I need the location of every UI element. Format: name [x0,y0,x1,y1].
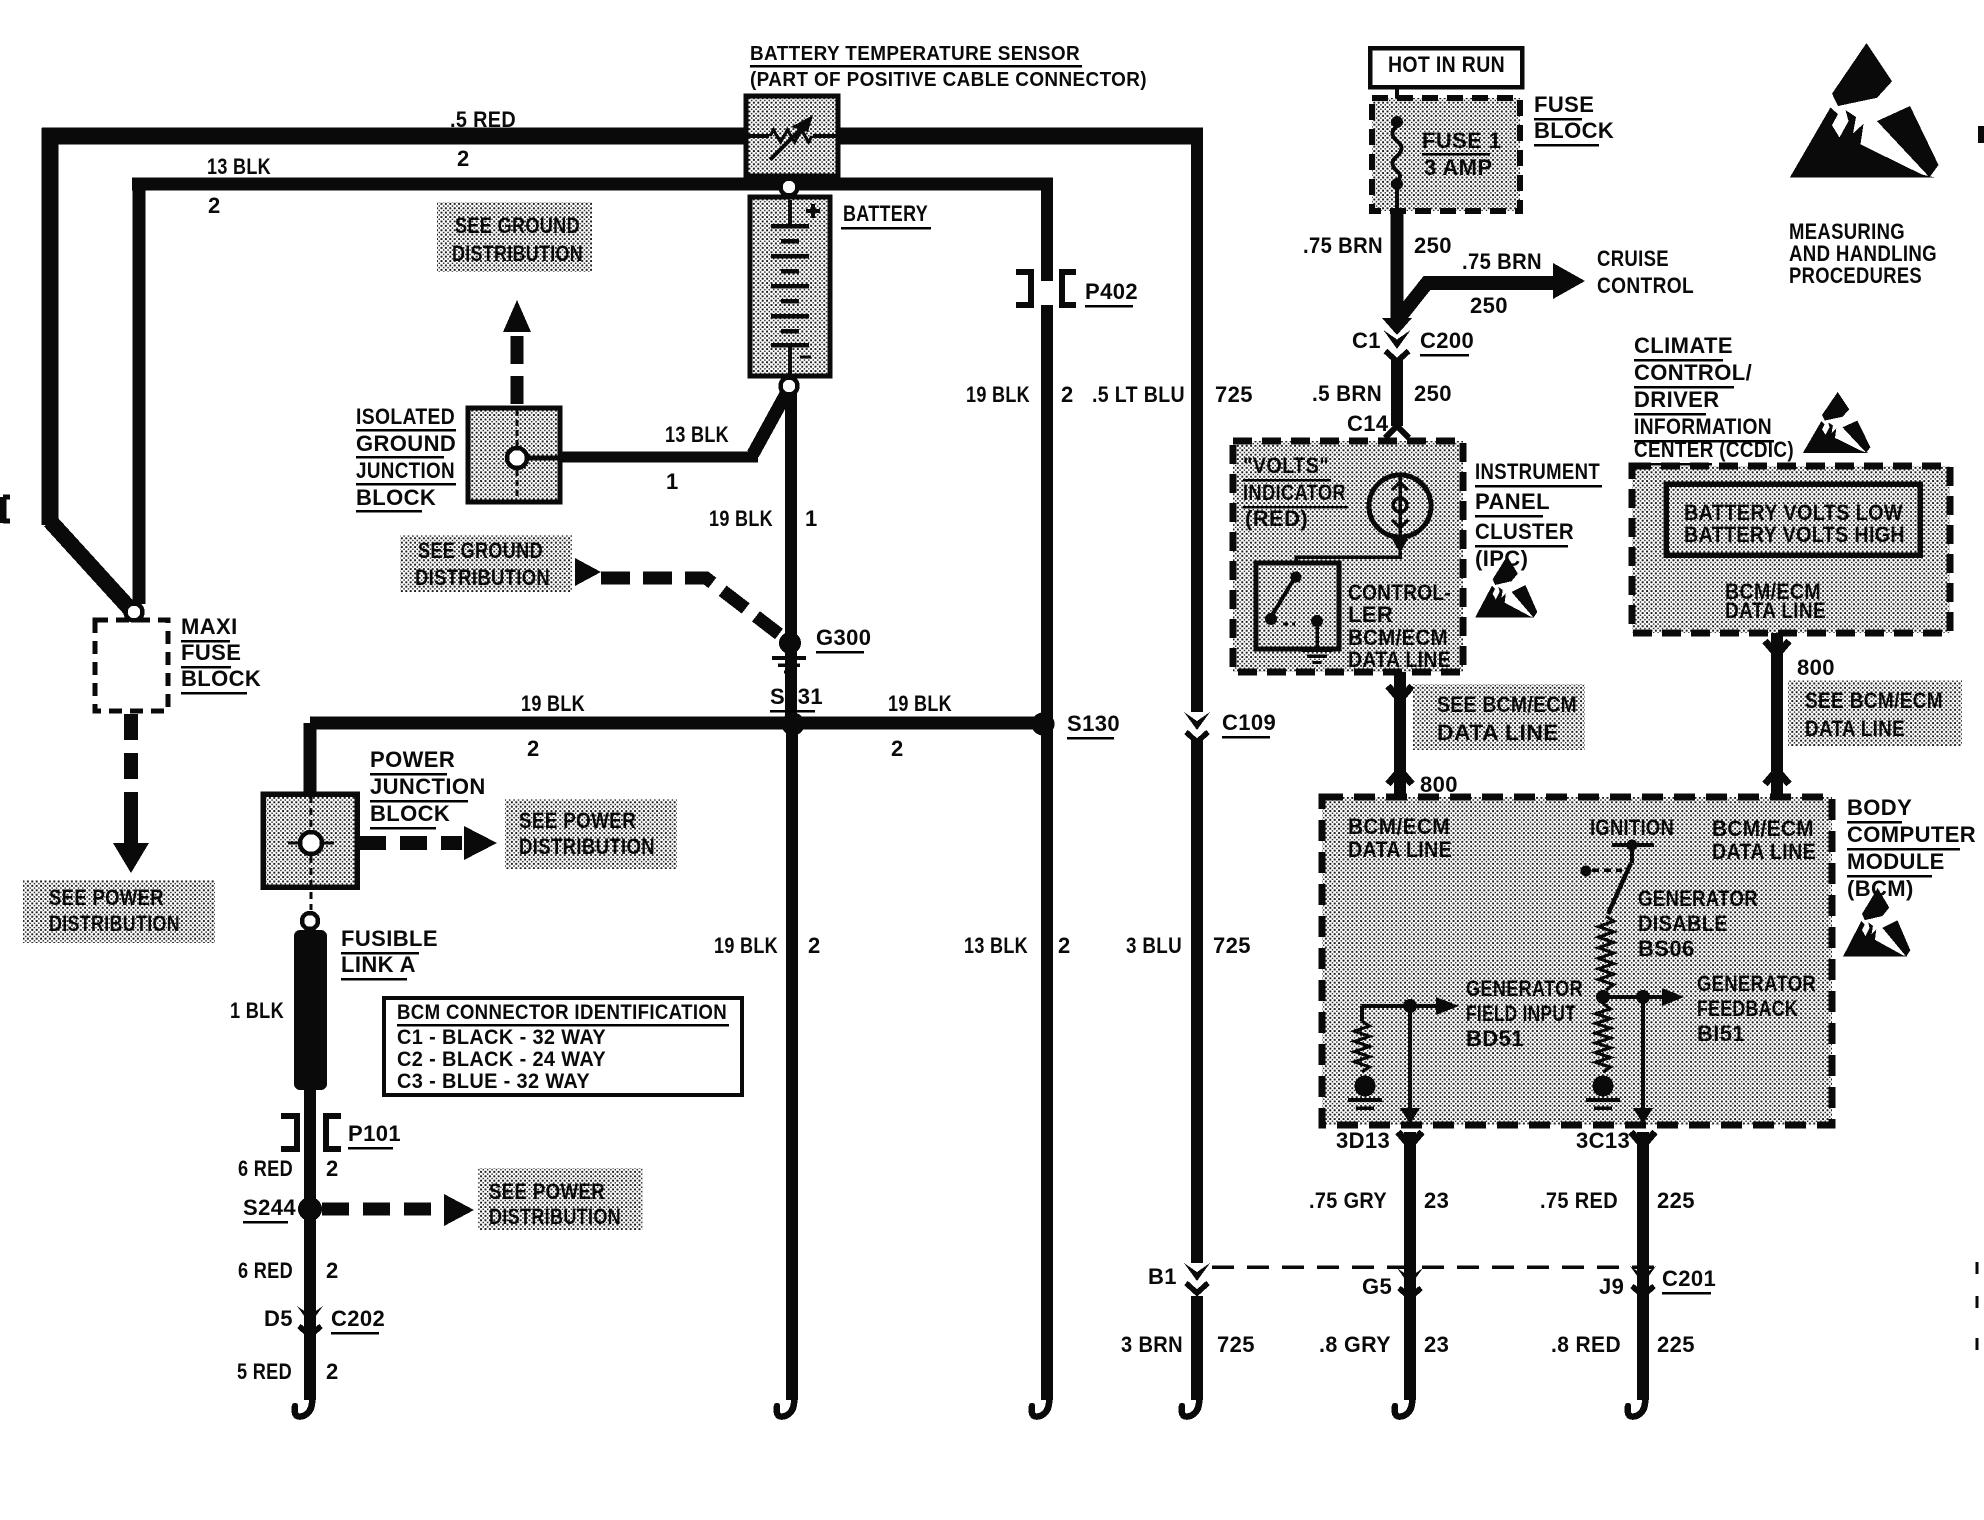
labels MEASURING AND HANDLING PROCEDURES [1789,219,1937,288]
svg-text:C2 - BLACK - 24 WAY: C2 - BLACK - 24 WAY [397,1047,606,1071]
svg-text:225: 225 [1657,1188,1695,1213]
battery volts message box [1666,484,1920,555]
resistor generator field input (left) [1355,1021,1370,1072]
svg-text:GENERATOR: GENERATOR [1638,886,1758,911]
wire field input node [1362,999,1436,1021]
svg-text:725: 725 [1213,933,1251,958]
splice S130 dot [1032,713,1055,736]
svg-text:.8 RED: .8 RED [1551,1332,1621,1357]
ignition switch symbol [1581,840,1655,915]
svg-text:INSTRUMENT: INSTRUMENT [1475,459,1600,484]
label C200 [1420,328,1474,357]
svg-text:C200: C200 [1420,328,1474,353]
svg-text:.8 GRY: .8 GRY [1319,1332,1391,1357]
svg-text:PANEL: PANEL [1475,489,1550,514]
arrow into dashed ground wire [575,558,601,586]
svg-text:3D13: 3D13 [1336,1128,1390,1153]
svg-text:P402: P402 [1085,279,1138,304]
svg-text:DISTRIBUTION: DISTRIBUTION [489,1204,621,1229]
node: battery negative terminal [781,378,798,395]
body computer module dashed box [1322,797,1832,1125]
power junction block internals [288,796,334,910]
svg-text:INFORMATION: INFORMATION [1634,414,1772,439]
controller box [1256,563,1339,649]
ground dot (right) [1593,1076,1614,1097]
svg-text:2: 2 [457,146,470,171]
scan edge marks [1976,1262,1979,1350]
hook terminal x1197 [1182,1394,1200,1417]
wire branch to cruise control [1396,283,1553,322]
resistor generator disable BS06 [1599,916,1614,990]
wire vertical trunk .5 LT BLU / 3 BLU (x1197) [1191,136,1203,1400]
svg-text:FUSE: FUSE [1534,92,1594,117]
labels MAXI FUSE BLOCK [181,614,261,695]
node: maxi fuse block terminal [126,604,143,621]
wire 19 BLK drop to power junction block [304,723,317,796]
labels FUSE BLOCK [1534,92,1614,147]
svg-text:COMPUTER: COMPUTER [1847,822,1976,847]
svg-text:19 BLK: 19 BLK [966,382,1030,407]
wire 19 BLK 1 (battery negative down to S131 column) [785,393,797,730]
svg-text:BLOCK: BLOCK [370,801,450,826]
svg-text:BATTERY VOLTS HIGH: BATTERY VOLTS HIGH [1684,522,1905,547]
svg-text:MAXI: MAXI [181,614,238,639]
label BATTERY TEMPERATURE SENSOR [750,43,1082,68]
svg-text:2: 2 [1061,382,1074,407]
svg-text:19 BLK: 19 BLK [714,933,778,958]
svg-text:C14: C14 [1347,411,1389,436]
svg-text:.75 GRY: .75 GRY [1309,1188,1387,1213]
label SEE GROUND DISTRIBUTION (upper) [437,202,592,272]
arrow generator feedback [1662,988,1684,1006]
connector C14 boundary symbol [1385,426,1409,475]
svg-text:DISTRIBUTION: DISTRIBUTION [519,834,655,859]
node: fusible link upper terminal [302,913,318,929]
label SEE POWER DISTRIBUTION (S244) [478,1168,643,1230]
sensor internal wire with variable resistor [748,130,836,142]
svg-text:FUSE: FUSE [181,640,241,665]
node: sensor lower terminal on 13 BLK wire [781,179,798,196]
connector G5 symbol [1397,1268,1423,1286]
label S244 [243,1195,296,1224]
wire 19 BLK 2 (S131 column down to bottom hook) [786,730,798,1400]
svg-text:SEE BCM/ECM: SEE BCM/ECM [1437,692,1577,717]
svg-text:FUSIBLE: FUSIBLE [341,926,438,951]
svg-text:LER: LER [1348,602,1393,627]
battery box [750,197,830,376]
svg-text:S244: S244 [243,1195,296,1220]
dashed wire to G300 [601,578,779,634]
label SEE BCM/ECM DATA LINE (left) [1413,684,1585,750]
wire 3C13 column [1631,1132,1655,1400]
labels BODY COMPUTER MODULE (BCM) [1847,795,1976,901]
BCM connector identification table box [384,998,742,1095]
labels BCM/ECM DATA LINE (top right) [1712,816,1816,864]
power junction block box [263,794,357,887]
svg-text:6 RED: 6 RED [238,1258,293,1283]
svg-text:800: 800 [1797,655,1835,680]
labels POWER JUNCTION BLOCK [370,747,486,830]
svg-text:BCM/ECM: BCM/ECM [1348,814,1450,839]
svg-text:INDICATOR: INDICATOR [1243,480,1346,505]
controller ground symbol [1302,648,1333,652]
variable resistor arrow [770,115,813,160]
svg-text:BI51: BI51 [1697,1021,1745,1046]
svg-text:.75 BRN: .75 BRN [1462,249,1542,274]
svg-text:DISTRIBUTION: DISTRIBUTION [49,911,180,936]
svg-text:DATA LINE: DATA LINE [1348,837,1452,862]
wire .5 BRN (C200 to IPC) [1391,358,1403,426]
wire 3D13 column [1398,1132,1422,1400]
ESD symbol (BCM) [1843,888,1910,957]
instrument panel cluster dashed box [1233,441,1463,672]
HOT IN RUN box [1370,48,1522,87]
arrow generator field input [1436,997,1459,1015]
controller switch symbol [1265,572,1323,649]
connector P101 brackets [281,1116,341,1149]
label S131 [770,684,823,713]
labels ISOLATED GROUND JUNCTION BLOCK [356,404,456,513]
dashed wire from S244 + arrow right [322,1194,474,1226]
resistor below node (right) [1596,1004,1611,1072]
svg-text:3C13: 3C13 [1576,1128,1630,1153]
svg-text:.75 RED: .75 RED [1540,1188,1618,1213]
labels CRUISE CONTROL [1597,246,1694,298]
svg-text:DATA LINE: DATA LINE [1712,839,1816,864]
dashed wire below maxi fuse block + arrow down [113,714,149,873]
node: power junction block terminal [300,832,322,854]
svg-text:DISTRIBUTION: DISTRIBUTION [415,565,550,590]
labels BATTERY VOLTS LOW/HIGH [1684,500,1905,547]
hook terminal 3D13 column [1395,1394,1413,1417]
fuse block dashed box [1372,98,1520,211]
svg-text:MODULE: MODULE [1847,849,1945,874]
svg-text:"VOLTS": "VOLTS" [1243,453,1329,478]
label SEE BCM/ECM DATA LINE (right) [1788,680,1962,746]
svg-text:2: 2 [326,1156,339,1181]
svg-text:C202: C202 [331,1306,385,1331]
svg-text:CRUISE: CRUISE [1597,246,1669,271]
label BATTERY [841,201,931,230]
wire CCDIC to BCM (800) [1765,633,1789,797]
labels BCM/ECM DATA LINE (top left) [1348,814,1452,862]
connector P402 brackets [1016,272,1076,305]
labels FUSIBLE LINK A [341,926,438,981]
svg-text:CLIMATE: CLIMATE [1634,333,1733,358]
svg-text:2: 2 [527,736,540,761]
svg-text:DATA LINE: DATA LINE [1348,647,1451,672]
svg-text:2: 2 [1058,933,1071,958]
labels GENERATOR FEEDBACK BI51 [1697,971,1816,1046]
wire 19 BLK 2 horizontal (power junction block to S130) [310,717,1043,730]
svg-text:IGNITION: IGNITION [1590,815,1674,840]
svg-text:23: 23 [1424,1332,1449,1357]
svg-text:CONTROL/: CONTROL/ [1634,360,1752,385]
svg-text:S130: S130 [1067,711,1120,736]
svg-text:13 BLK: 13 BLK [964,933,1028,958]
svg-text:2: 2 [891,736,904,761]
svg-text:C201: C201 [1662,1266,1716,1291]
svg-text:.5 LT BLU: .5 LT BLU [1092,382,1185,407]
ESD symbol (CCDIC) [1803,392,1870,453]
splice S244 dot [298,1197,322,1221]
wire vertical trunk 13BLK/19BLK (x1047) [1041,184,1053,1400]
wire diagonal battery negative to 13 BLK 1 [753,392,787,454]
svg-text:LINK A: LINK A [341,952,416,977]
wire .5 RED diagonal into maxi fuse block [50,521,131,610]
label SEE POWER DISTRIBUTION (power junction) [505,799,677,869]
svg-text:(RED): (RED) [1245,506,1308,531]
labels CLIMATE CONTROL / DRIVER INFORMATION CENTER (CCDIC) [1634,333,1794,466]
label P402 [1085,279,1138,308]
ground dot (left) [1355,1076,1376,1097]
label C109 [1222,710,1276,739]
hook terminal S131 column [777,1394,795,1417]
svg-text:SEE GROUND: SEE GROUND [418,538,543,563]
hook terminal 3C13 column [1628,1394,1646,1417]
wire 6 RED / 5 RED column [304,1090,316,1400]
svg-text:23: 23 [1424,1188,1449,1213]
svg-text:DRIVER: DRIVER [1634,387,1720,412]
wire 13 BLK trunk (horizontal + left vertical drop) [132,184,1053,604]
svg-text:SEE GROUND: SEE GROUND [455,213,580,238]
svg-text:2: 2 [326,1258,339,1283]
svg-text:D5: D5 [264,1306,293,1331]
scan artifact right edge top [1978,126,1984,143]
scan artifact left edge [3,497,10,523]
node dot (gen disable / feedback) [1596,990,1610,1004]
svg-text:1 BLK: 1 BLK [230,998,284,1023]
volts indicator lamp [1369,475,1431,537]
connector C200 symbol [1382,318,1412,362]
label G300 [816,625,871,654]
svg-text:GENERATOR: GENERATOR [1697,971,1816,996]
svg-text:225: 225 [1657,1332,1695,1357]
svg-text:3 AMP: 3 AMP [1424,155,1492,180]
wire feedback node down to 3C13 [1633,997,1653,1124]
svg-text:1: 1 [666,469,679,494]
svg-text:.5 RED: .5 RED [450,107,516,132]
label C202 [331,1306,385,1335]
ESD symbol (large, measuring/handling) [1790,43,1939,177]
svg-text:DISTRIBUTION: DISTRIBUTION [452,241,583,266]
ground G300 symbol [772,656,806,660]
svg-text:3 BLU: 3 BLU [1126,933,1182,958]
CCDIC dashed box [1632,466,1950,633]
svg-text:J9: J9 [1599,1274,1624,1299]
ground symbol (right) [1586,1100,1620,1108]
svg-text:JUNCTION: JUNCTION [356,458,455,483]
svg-text:725: 725 [1215,382,1253,407]
labels VOLTS INDICATOR (RED) [1243,453,1348,531]
battery cell plates [771,200,809,374]
connector J9/C201 symbol [1630,1266,1656,1284]
label SEE GROUND DISTRIBUTION (lower) [400,535,572,592]
svg-text:C3 - BLUE - 32 WAY: C3 - BLUE - 32 WAY [397,1069,590,1093]
svg-text:2: 2 [208,193,221,218]
svg-text:CLUSTER: CLUSTER [1475,519,1574,544]
wire node to feedback arrow [1603,990,1662,1004]
wire IPC to BCM (800) [1388,672,1412,797]
svg-text:BCM CONNECTOR IDENTIFICATION: BCM CONNECTOR IDENTIFICATION [397,1000,727,1024]
isolated ground junction block box [468,408,560,502]
connector C201 dashed line [1212,1265,1658,1269]
svg-text:19 BLK: 19 BLK [521,691,585,716]
junction block internal dashed stub [517,410,559,500]
svg-text:.5 BRN: .5 BRN [1312,381,1382,406]
connector B1/C201 symbol [1184,1263,1210,1281]
svg-text:13 BLK: 13 BLK [207,154,271,179]
dashed wire up to ground distribution (arrow up) [503,300,531,404]
svg-text:3 BRN: 3 BRN [1121,1332,1183,1357]
svg-text:B1: B1 [1148,1264,1177,1289]
svg-text:P101: P101 [348,1121,401,1146]
ground G300 node dot [779,632,801,654]
svg-text:13 BLK: 13 BLK [665,422,729,447]
label SEE POWER DISTRIBUTION (far left) [23,880,215,943]
labels GENERATOR FIELD INPUT BD51 [1466,976,1583,1051]
wire 13 BLK 1 (isolated ground junction block to battery) [561,452,758,463]
svg-text:SEE BCM/ECM: SEE BCM/ECM [1805,688,1943,713]
svg-text:5 RED: 5 RED [237,1359,292,1384]
maxi fuse block dashed box [95,620,168,711]
svg-text:DATA LINE: DATA LINE [1805,716,1905,741]
svg-text:CONTROL: CONTROL [1597,273,1694,298]
hook terminal 5 RED column [295,1394,313,1417]
svg-text:250: 250 [1414,381,1452,406]
svg-text:ISOLATED: ISOLATED [356,404,455,429]
svg-text:BATTERY TEMPERATURE SENSOR: BATTERY TEMPERATURE SENSOR [750,43,1080,65]
svg-text:C1: C1 [1352,328,1381,353]
svg-text:JUNCTION: JUNCTION [370,774,486,799]
svg-text:S131: S131 [770,684,823,709]
ESD symbol (IPC) [1475,556,1537,618]
fusible link A bar [294,930,327,1090]
svg-text:G5: G5 [1362,1274,1392,1299]
svg-text:250: 250 [1470,293,1508,318]
wire field node down to 3D13 [1400,1006,1420,1124]
ground symbol (left) [1348,1100,1382,1108]
svg-text:FIELD INPUT: FIELD INPUT [1466,1001,1576,1026]
arrow to cruise control [1553,263,1585,299]
dashed wire out of power junction block + arrow right [359,826,497,860]
svg-text:6 RED: 6 RED [238,1156,293,1181]
labels GENERATOR DISABLE BS06 [1638,886,1758,961]
svg-text:DATA LINE: DATA LINE [1725,598,1826,623]
wire .5 RED power trunk (top horizontal + left vertical) [42,128,1203,525]
svg-text:HOT IN RUN: HOT IN RUN [1388,52,1505,77]
svg-text:DISABLE: DISABLE [1638,911,1728,936]
svg-text:POWER: POWER [370,747,455,772]
svg-text:BLOCK: BLOCK [1534,118,1614,143]
labels INSTRUMENT PANEL CLUSTER (IPC) [1475,459,1602,571]
svg-text:725: 725 [1217,1332,1255,1357]
arrow below lamp [1392,539,1408,553]
svg-text:BLOCK: BLOCK [181,666,261,691]
svg-text:(PART OF POSITIVE CABLE CONNEC: (PART OF POSITIVE CABLE CONNECTOR) [750,69,1147,91]
label P101 [348,1121,401,1150]
wire .75 BRN fuse output [1391,211,1404,326]
svg-text:PROCEDURES: PROCEDURES [1789,263,1922,288]
svg-text:G300: G300 [816,625,871,650]
svg-text:19 BLK: 19 BLK [709,506,773,531]
svg-text:C1 - BLACK - 32 WAY: C1 - BLACK - 32 WAY [397,1025,606,1049]
labels FUSE 1 / 3 AMP [1422,128,1501,180]
svg-text:BODY: BODY [1847,795,1912,820]
svg-text:GENERATOR: GENERATOR [1466,976,1583,1001]
wire hot-in-run to fuse [1395,87,1399,122]
svg-text:2: 2 [326,1359,339,1384]
svg-text:.75 BRN: .75 BRN [1303,233,1383,258]
splice S131 dot [782,713,805,736]
svg-text:DATA LINE: DATA LINE [1437,720,1559,745]
svg-text:FEEDBACK: FEEDBACK [1697,996,1798,1021]
svg-text:BD51: BD51 [1466,1026,1524,1051]
connector C202 symbol [297,1306,323,1324]
svg-text:BATTERY: BATTERY [843,201,928,226]
svg-text:SEE POWER: SEE POWER [489,1179,605,1204]
svg-text:SEE POWER: SEE POWER [519,808,636,833]
svg-text:19 BLK: 19 BLK [888,691,952,716]
BCM connector identification text [397,1000,729,1093]
svg-text:1: 1 [805,506,818,531]
svg-text:BLOCK: BLOCK [356,485,436,510]
labels BCM/ECM DATA LINE (CCDIC) [1725,579,1826,623]
wire lamp to controller [1296,551,1400,564]
svg-text:C109: C109 [1222,710,1276,735]
label C201 [1662,1266,1716,1295]
battery temperature sensor box [746,96,838,176]
labels CONTROLLER BCM/ECM DATA LINE [1348,580,1451,672]
connector C109 symbol [1184,712,1210,730]
label S130 [1067,711,1120,740]
svg-text:SEE POWER: SEE POWER [49,885,164,910]
svg-text:CENTER (CCDIC): CENTER (CCDIC) [1634,437,1794,462]
hook terminal x1047 [1032,1394,1050,1417]
fuse 1 element [1391,116,1403,211]
svg-text:GROUND: GROUND [356,431,456,456]
node: isolated ground junction terminal [507,448,527,468]
svg-text:FUSE 1: FUSE 1 [1422,128,1501,153]
battery - terminal mark [800,355,811,358]
svg-text:2: 2 [808,933,821,958]
battery + terminal mark [806,204,820,218]
svg-text:BS06: BS06 [1638,936,1695,961]
svg-text:250: 250 [1414,233,1452,258]
svg-text:BCM/ECM: BCM/ECM [1712,816,1814,841]
svg-text:800: 800 [1420,772,1458,797]
